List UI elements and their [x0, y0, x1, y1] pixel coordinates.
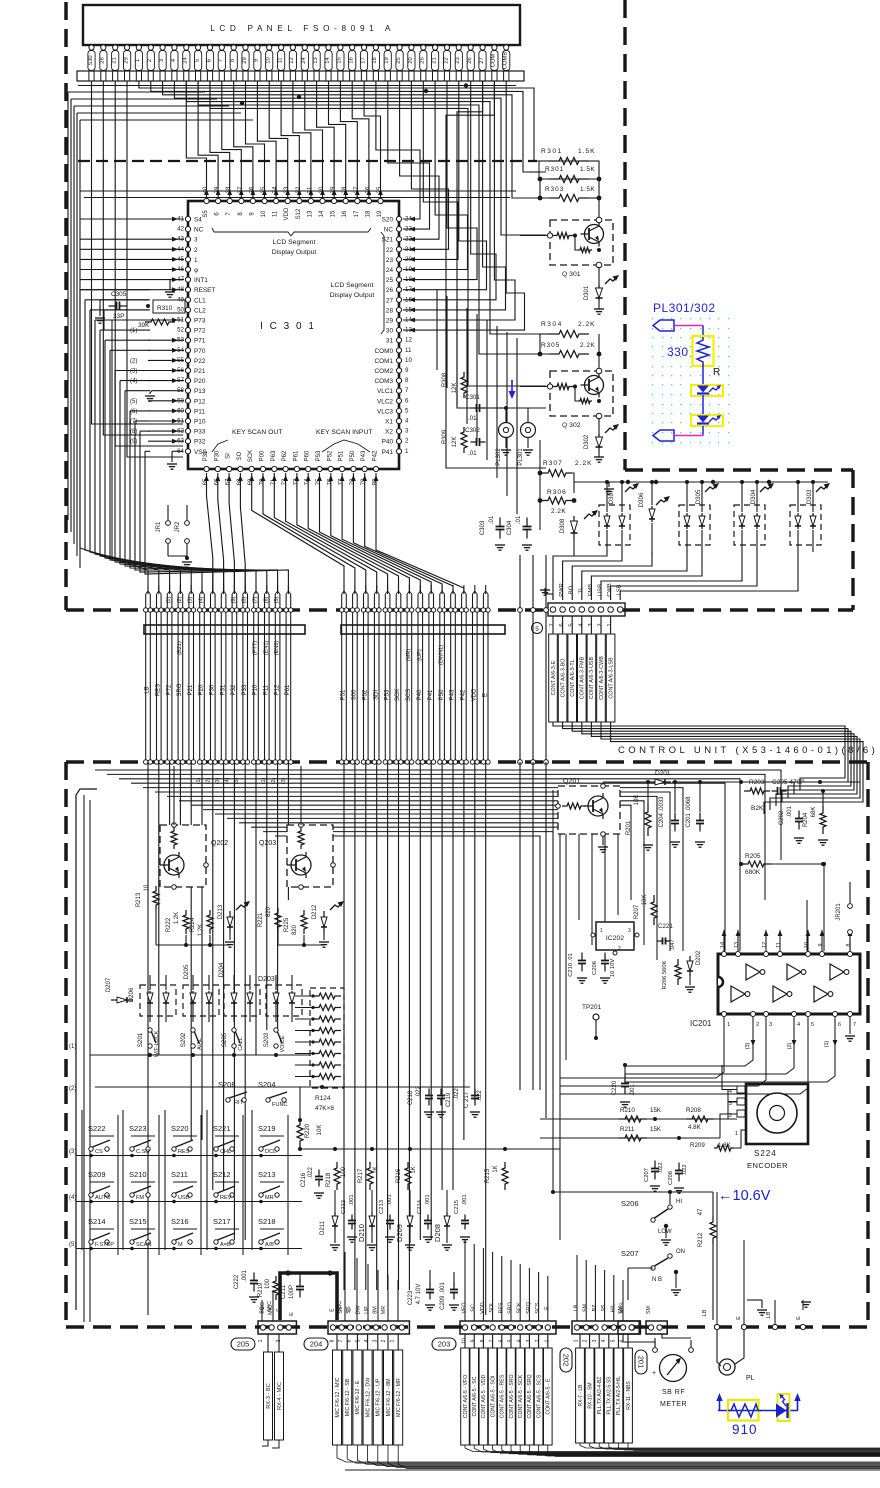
svg-text:(7): (7) — [130, 419, 137, 425]
svg-text:330: 330 — [667, 345, 689, 359]
svg-text:CONT A/6-5 - VDD: CONT A/6-5 - VDD — [481, 1374, 487, 1418]
wire R304-305 join — [540, 334, 599, 371]
svg-text:2.2K: 2.2K — [551, 508, 566, 515]
connector 204 oval — [304, 1338, 328, 1350]
connector 203 oval — [432, 1338, 456, 1350]
svg-text:SDI: SDI — [373, 690, 379, 700]
svg-text:63: 63 — [177, 438, 184, 445]
svg-text:(5): (5) — [69, 1242, 76, 1248]
svg-text:21: 21 — [431, 57, 437, 63]
switch S203 VOICE — [263, 1028, 286, 1053]
svg-text:Q201: Q201 — [563, 778, 580, 785]
svg-text:COM2: COM2 — [375, 368, 394, 375]
svg-text:P21: P21 — [194, 368, 206, 375]
svg-text:S220: S220 — [171, 1124, 189, 1133]
svg-text:LCD Segment: LCD Segment — [331, 282, 374, 289]
resistor R203 82K — [744, 779, 770, 812]
svg-text:54: 54 — [177, 347, 184, 354]
svg-text:100: 100 — [341, 1166, 347, 1177]
svg-text:22: 22 — [386, 247, 394, 254]
connector bar right — [341, 625, 505, 634]
svg-text:TP201: TP201 — [582, 1004, 602, 1011]
svg-text:S221: S221 — [213, 1124, 231, 1133]
svg-text:64: 64 — [177, 448, 184, 455]
capacitor C218 .022 — [408, 1086, 434, 1118]
svg-text:MIC F/6-12 - SB: MIC F/6-12 - SB — [345, 1378, 351, 1416]
svg-text:MIC F/6-12 - MIC: MIC F/6-12 - MIC — [335, 1377, 341, 1417]
wire horizontal mid control — [90, 1055, 470, 1120]
svg-text:61: 61 — [177, 418, 184, 425]
svg-text:S204: S204 — [258, 1080, 276, 1089]
node tags 1-9 left of IC301 — [130, 328, 137, 445]
svg-text:JR2: JR2 — [175, 521, 181, 532]
resistor R301 1.5K — [539, 148, 599, 165]
svg-text:D302: D302 — [584, 434, 590, 449]
svg-text:RIT: RIT — [234, 1100, 244, 1106]
svg-text:X2: X2 — [385, 429, 393, 436]
svg-text:31: 31 — [386, 338, 394, 345]
diode D209 — [395, 1190, 415, 1250]
wire panel left pins to right column — [139, 81, 546, 468]
svg-text:(EN2): (EN2) — [274, 641, 280, 656]
wire top long horizontals — [78, 83, 516, 197]
svg-text:51: 51 — [177, 317, 184, 324]
svg-text:C305: C305 — [111, 291, 127, 298]
svg-text:56: 56 — [177, 367, 184, 374]
svg-text:43: 43 — [177, 236, 184, 243]
svg-text:5: 5 — [535, 626, 539, 633]
svg-text:D305: D305 — [695, 489, 702, 504]
svg-text:JR1: JR1 — [156, 521, 162, 532]
svg-text:6: 6 — [206, 59, 212, 62]
svg-text:φ: φ — [194, 267, 198, 274]
jumper JR1 — [156, 505, 170, 556]
svg-text:S203: S203 — [263, 1032, 270, 1047]
svg-text:RX-11 - NBS: RX-11 - NBS — [626, 1381, 632, 1410]
svg-text:13: 13 — [405, 327, 412, 334]
connector 205 — [258, 1321, 296, 1334]
capacitor C210 .01 — [568, 953, 587, 984]
switch S204 FUNC — [258, 1080, 288, 1108]
RX-3 RX-4 label boxes — [264, 1334, 284, 1440]
svg-text:C213: C213 — [379, 1200, 385, 1214]
svg-text:D304: D304 — [750, 489, 757, 504]
svg-text:19: 19 — [384, 57, 390, 63]
svg-text:S210: S210 — [129, 1170, 147, 1179]
wire panel right pins to IC301 right — [376, 81, 525, 333]
svg-text:P60: P60 — [305, 450, 311, 461]
wire IC201 bottom sweeps — [560, 1034, 837, 1094]
svg-text:24: 24 — [183, 57, 189, 64]
photo-diode pair D307 — [599, 480, 639, 552]
svg-text:P20: P20 — [199, 684, 205, 695]
annotation LED1 — [691, 365, 723, 396]
svg-text:29: 29 — [386, 318, 394, 325]
svg-text:C301: C301 — [465, 394, 480, 401]
svg-text:CONT A/6-3-E: CONT A/6-3-E — [551, 660, 557, 695]
svg-text:S215: S215 — [129, 1217, 147, 1226]
annotation wire top — [674, 326, 703, 338]
svg-text:A/B: A/B — [265, 1242, 274, 1248]
svg-text:D205: D205 — [183, 964, 190, 979]
connector 204 — [328, 1321, 409, 1334]
svg-text:P71: P71 — [194, 338, 206, 345]
resistor R207 10K — [634, 895, 657, 925]
capacitor C201 .0068 — [686, 782, 705, 847]
resistor R218 100 — [326, 1162, 347, 1190]
svg-text:(3): (3) — [69, 1149, 76, 1155]
svg-text:P61: P61 — [293, 450, 299, 461]
svg-text:R220: R220 — [305, 1123, 311, 1138]
annotation blue arrow down — [509, 380, 516, 399]
svg-text:P22: P22 — [194, 358, 206, 365]
svg-text:S223: S223 — [129, 1124, 147, 1133]
svg-text:S224: S224 — [754, 1149, 777, 1158]
svg-text:29: 29 — [123, 57, 129, 63]
svg-text:.01: .01 — [516, 515, 522, 524]
svg-text:(4): (4) — [69, 1195, 76, 1201]
svg-text:10: 10 — [261, 210, 267, 217]
svg-text:USB: USB — [178, 1195, 190, 1201]
svg-text:42: 42 — [177, 226, 184, 233]
svg-text:13: 13 — [307, 210, 313, 217]
svg-text:E: E — [736, 1316, 742, 1320]
svg-text:1K: 1K — [493, 1165, 499, 1172]
svg-text:MIC F/6-12 - E: MIC F/6-12 - E — [355, 1380, 361, 1415]
svg-text:C207: C207 — [644, 1168, 650, 1182]
resistor R222 1.2K — [166, 910, 189, 934]
node tags above left bar — [166, 596, 280, 603]
svg-text:4: 4 — [601, 1339, 607, 1342]
svg-text:P61: P61 — [285, 684, 291, 695]
svg-text:COMB: COMB — [503, 52, 509, 70]
IC201 top pins — [720, 930, 853, 957]
svg-text:R305: R305 — [541, 342, 560, 349]
ground IC301 pin58 — [145, 391, 183, 402]
svg-text:48: 48 — [177, 286, 184, 293]
svg-text:R310: R310 — [157, 305, 173, 312]
capacitor C302 .01 — [465, 427, 486, 457]
wire right bundle verticals — [540, 770, 781, 1090]
svg-text:S4: S4 — [194, 217, 202, 224]
wire CONT boxes sweep right — [553, 722, 863, 814]
svg-text:SCK: SCK — [395, 689, 401, 701]
wire LB E verticals — [717, 1192, 811, 1330]
capacitor C217 .022 — [464, 1089, 483, 1118]
resistor R219 100 — [258, 1276, 279, 1300]
svg-text:F.STEP: F.STEP — [95, 1242, 114, 1248]
svg-text:P42: P42 — [461, 689, 467, 700]
svg-text:CONT A/6-5 - RES: CONT A/6-5 - RES — [500, 1374, 506, 1418]
svg-text:39K: 39K — [138, 322, 150, 329]
capacitor C202 .001 — [779, 806, 804, 844]
svg-text:C218: C218 — [408, 1090, 414, 1105]
LCD panel connector bus bar — [77, 71, 524, 81]
svg-text:9: 9 — [818, 943, 824, 946]
svg-text:S12: S12 — [296, 208, 302, 219]
IC301 text key scan out — [212, 429, 283, 452]
resistor array R124 47Kx8 — [310, 988, 344, 1112]
wire switch grid verticals — [82, 1110, 288, 1255]
capacitor C212 .001 — [341, 1194, 357, 1242]
resistor R308 12K — [442, 372, 467, 398]
wire 204 boxes sweep — [337, 1445, 880, 1469]
svg-text:E: E — [289, 1312, 295, 1316]
annotation text 10.6V — [718, 1188, 771, 1204]
svg-text:205: 205 — [237, 1340, 250, 1349]
svg-text:D202: D202 — [696, 950, 702, 965]
resistor R206 560K — [662, 959, 681, 990]
wire right column bundle — [340, 585, 491, 764]
resistor R306 2.2K — [538, 440, 577, 530]
svg-text:24: 24 — [386, 267, 394, 274]
svg-text:C208: C208 — [668, 1171, 674, 1185]
annotation arrows 910 — [716, 1393, 800, 1410]
svg-text:(3): (3) — [130, 369, 137, 375]
svg-text:25: 25 — [386, 277, 394, 284]
svg-text:S218: S218 — [258, 1217, 276, 1226]
svg-text:CL1: CL1 — [194, 297, 206, 304]
svg-text:1: 1 — [727, 1022, 730, 1028]
wire IC301 left pin entries — [80, 217, 184, 444]
svg-text:D306: D306 — [638, 492, 645, 507]
resistor R221 820 — [258, 906, 281, 932]
svg-text:R210: R210 — [620, 1107, 635, 1114]
svg-text:58: 58 — [177, 387, 184, 394]
svg-text:2: 2 — [583, 1339, 589, 1342]
capacitor C301 .01 — [465, 394, 486, 422]
diode D201 — [649, 770, 671, 785]
svg-text:C215: C215 — [454, 1200, 460, 1214]
wire left edge nest — [68, 92, 253, 568]
svg-text:14: 14 — [319, 210, 325, 217]
svg-text:ENCODER: ENCODER — [747, 1161, 788, 1170]
wire 203 boxes sweep — [465, 1445, 880, 1457]
svg-text:18: 18 — [365, 210, 371, 217]
svg-text:16: 16 — [342, 210, 348, 217]
svg-text:(8): (8) — [242, 596, 248, 603]
wire encoder feeds — [540, 1102, 737, 1140]
resistor R209 1.8K — [690, 1142, 732, 1149]
IC201 bottom pins — [722, 1012, 857, 1035]
svg-text:45: 45 — [177, 256, 184, 263]
svg-text:LOW: LOW — [658, 1229, 672, 1235]
svg-text:1: 1 — [574, 1339, 580, 1342]
svg-text:R308: R308 — [442, 372, 448, 387]
svg-text:8: 8 — [330, 1339, 336, 1342]
svg-text:1K: 1K — [411, 1166, 417, 1173]
IC301 right pins — [375, 216, 402, 455]
svg-text:25: 25 — [420, 57, 426, 63]
diode D211 — [320, 1190, 340, 1250]
IC IC202 — [591, 922, 639, 955]
svg-text:C O N T R O L U N I T ( X: C O N T R O L U N I T ( X 5 3 - 1 4 6 0 … — [618, 745, 875, 756]
wire IC201 pins up — [807, 862, 826, 951]
svg-text:S209: S209 — [88, 1170, 106, 1179]
svg-text:1.5K: 1.5K — [580, 186, 595, 193]
svg-text:P52: P52 — [327, 450, 333, 461]
svg-text:CS: CS — [95, 1149, 103, 1155]
display block dashed border right vertical — [851, 470, 854, 610]
svg-text:CONT A/6-5 - SCS: CONT A/6-5 - SCS — [536, 1374, 542, 1418]
svg-text:1: 1 — [405, 448, 409, 455]
svg-text:100P: 100P — [289, 1285, 295, 1299]
capacitor C303 .01 — [480, 515, 505, 550]
IC301 pin number tags redraw — [177, 216, 412, 455]
IC301 left pins — [185, 216, 215, 455]
svg-text:.01: .01 — [468, 415, 477, 422]
svg-text:C201 .0068: C201 .0068 — [686, 796, 692, 828]
svg-text:R207: R207 — [634, 904, 640, 919]
svg-text:21: 21 — [112, 57, 118, 63]
svg-text:Q 301: Q 301 — [562, 271, 581, 278]
svg-text:R208: R208 — [686, 1107, 701, 1114]
LED D301 — [584, 267, 619, 314]
capacitor C215 .001 — [454, 1194, 470, 1242]
wire panel first pins down to IC left lower — [92, 81, 184, 457]
svg-text:P13: P13 — [194, 388, 206, 395]
svg-text:14: 14 — [405, 317, 412, 324]
svg-text:R203: R203 — [749, 779, 765, 786]
svg-text:P11: P11 — [264, 684, 270, 695]
svg-text:D209: D209 — [395, 1224, 404, 1242]
svg-text:RESET: RESET — [194, 287, 215, 294]
resistor R220 10K — [297, 1118, 323, 1149]
svg-text:C211: C211 — [281, 1284, 287, 1299]
svg-text:(MR): (MR) — [406, 649, 412, 662]
svg-text:CONT A/6-5 - SCK: CONT A/6-5 - SCK — [518, 1374, 524, 1418]
resistor R302 1.5K — [538, 161, 602, 183]
svg-text:100: 100 — [265, 1278, 271, 1289]
hex inverter IC201 — [690, 954, 860, 1028]
LED D308 — [560, 510, 598, 556]
svg-text:33P: 33P — [113, 313, 124, 320]
transistor Q203 — [259, 823, 335, 890]
svg-text:VDD: VDD — [284, 207, 290, 220]
svg-text:HI: HI — [676, 1199, 682, 1205]
svg-text:P32: P32 — [194, 439, 206, 446]
svg-text:27: 27 — [386, 297, 394, 304]
svg-text:3: 3 — [159, 59, 165, 62]
wire Q202 Q203 bases — [156, 910, 324, 947]
resistor R210 15K — [619, 1107, 662, 1122]
svg-text:1: 1 — [390, 1339, 396, 1342]
svg-text:P53: P53 — [384, 689, 390, 700]
wire bottom bus lines — [345, 1469, 880, 1471]
wire extra columns into control unit — [520, 762, 560, 1240]
svg-text:1.2K: 1.2K — [198, 924, 204, 936]
svg-text:INT1: INT1 — [194, 277, 208, 284]
wire 203 connector verticals — [465, 1240, 548, 1321]
svg-text:15K: 15K — [650, 1126, 662, 1133]
svg-text:R306: R306 — [547, 489, 567, 496]
svg-text:DW: DW — [355, 1305, 361, 1315]
svg-text:S30: S30 — [88, 55, 94, 65]
svg-text:P20: P20 — [194, 378, 206, 385]
svg-text:PL: PL — [746, 1375, 755, 1382]
svg-text:1: 1 — [194, 257, 198, 264]
capacitor C204 .0033 — [659, 780, 680, 847]
ground connector 5 left — [540, 588, 553, 600]
resistor R225 820 — [284, 910, 307, 935]
svg-text:7: 7 — [338, 1339, 344, 1342]
svg-text:(1): (1) — [824, 1040, 830, 1047]
top block dashed border inner horizontal — [78, 160, 537, 162]
svg-text:R301: R301 — [541, 148, 563, 155]
svg-text:NC: NC — [384, 227, 394, 234]
svg-text:D213: D213 — [218, 904, 224, 919]
svg-text:R304: R304 — [541, 321, 563, 328]
svg-text:I C 3 0 1: I C 3 0 1 — [260, 321, 316, 332]
svg-text:C210 .01: C210 .01 — [568, 953, 574, 977]
svg-text:(8): (8) — [130, 429, 137, 435]
svg-text:Q 302: Q 302 — [562, 422, 581, 429]
svg-text:RX-10 - SM: RX-10 - SM — [587, 1382, 593, 1408]
transistor Q201 — [556, 778, 620, 852]
annotation text PL301/302 — [653, 301, 716, 315]
wire IC301 left extra rows — [100, 300, 183, 560]
svg-text:R124: R124 — [315, 1095, 331, 1102]
svg-text:METER: METER — [660, 1401, 687, 1408]
photo-diode pair D304 — [734, 480, 774, 552]
switch grid rows — [69, 1124, 284, 1248]
svg-text:MIC F/6-12 - DW: MIC F/6-12 - DW — [365, 1378, 371, 1417]
annotation connector arrow bottom — [653, 426, 703, 441]
svg-text:R309: R309 — [442, 429, 448, 444]
svg-text:P50: P50 — [350, 450, 356, 461]
photo-diode pair D205 — [183, 964, 219, 1022]
svg-text:25: 25 — [396, 57, 402, 63]
wire lamp feed — [490, 406, 540, 422]
svg-text:.01: .01 — [468, 450, 477, 457]
svg-text:(3): (3) — [745, 1042, 751, 1049]
svg-text:3: 3 — [405, 428, 409, 435]
svg-text:(3): (3) — [188, 596, 194, 603]
svg-text:AUTO: AUTO — [95, 1195, 111, 1201]
svg-text:59: 59 — [177, 397, 184, 404]
svg-text:10K: 10K — [634, 795, 640, 806]
svg-text:4.7 10V: 4.7 10V — [416, 1284, 422, 1305]
svg-text:7: 7 — [218, 59, 224, 62]
resistor R216 1K — [396, 1162, 417, 1190]
svg-text:1.8K: 1.8K — [718, 1142, 732, 1149]
svg-text:8: 8 — [405, 377, 409, 384]
svg-text:KEY SCAN OUT: KEY SCAN OUT — [232, 429, 283, 436]
svg-text:5: 5 — [405, 407, 409, 414]
svg-text:P43: P43 — [450, 689, 456, 700]
svg-text:R206 560K: R206 560K — [662, 960, 668, 989]
lamp PL302 — [496, 423, 514, 466]
svg-text:12K: 12K — [452, 383, 458, 394]
svg-text:10: 10 — [266, 57, 272, 63]
svg-text:2.2K: 2.2K — [575, 460, 593, 467]
svg-text:SM: SM — [646, 1305, 652, 1314]
svg-text:P42: P42 — [373, 450, 379, 461]
svg-text:C222: C222 — [234, 1274, 240, 1289]
svg-text:P62: P62 — [282, 450, 288, 461]
wire IC301 bottom fanout — [204, 473, 464, 592]
svg-text:S212: S212 — [213, 1170, 231, 1179]
svg-text:S20: S20 — [382, 217, 394, 224]
svg-text:3: 3 — [592, 1339, 598, 1342]
ground IC301 pin47 — [165, 280, 183, 298]
transistor Q302 — [520, 368, 613, 429]
svg-text:R303: R303 — [545, 186, 564, 193]
svg-text:47: 47 — [177, 276, 184, 283]
control unit title — [618, 745, 875, 756]
svg-text:D208: D208 — [433, 1224, 442, 1242]
svg-text:(7): (7) — [253, 596, 259, 603]
